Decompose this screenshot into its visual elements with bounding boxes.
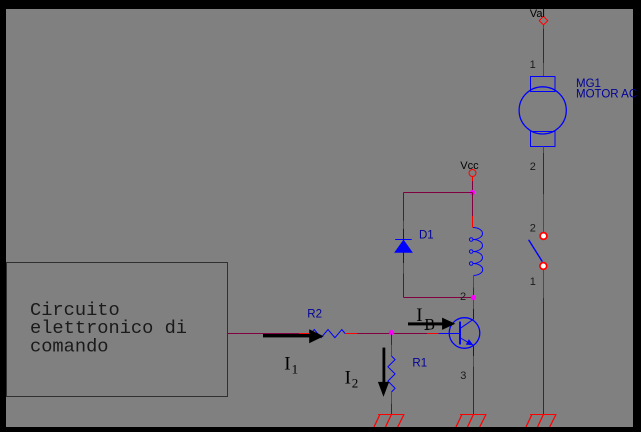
svg-text:1: 1 xyxy=(530,59,536,71)
svg-text:I: I xyxy=(284,354,290,375)
block: Circuito elettronico di comando xyxy=(7,263,228,397)
resistor R2 xyxy=(299,330,357,338)
wire emitter to ground xyxy=(473,367,475,415)
node junction base/R1 xyxy=(389,330,394,335)
diode D1 xyxy=(395,221,412,274)
ground (R1) xyxy=(374,415,405,428)
svg-text:1: 1 xyxy=(530,276,536,288)
switch S1 xyxy=(529,194,547,298)
power Val xyxy=(539,16,548,29)
ground (S1) xyxy=(526,415,557,428)
wire R2 to node xyxy=(357,333,392,335)
svg-text:2: 2 xyxy=(352,376,359,391)
resistor R1 xyxy=(388,345,395,404)
svg-text:R1: R1 xyxy=(412,358,427,370)
svg-text:I: I xyxy=(416,305,422,326)
wire Vcc to junction xyxy=(472,181,474,193)
svg-text:3: 3 xyxy=(460,370,466,382)
wire top of D1 loop xyxy=(404,192,473,194)
inductor L1 xyxy=(469,216,482,288)
wire Val to motor xyxy=(543,29,545,63)
svg-text:2: 2 xyxy=(530,222,536,234)
wire R1 to ground xyxy=(391,404,393,415)
node Vcc junction xyxy=(470,190,475,195)
wire left of D1 loop lower xyxy=(403,273,405,297)
svg-text:Val: Val xyxy=(530,8,545,20)
svg-text:R2: R2 xyxy=(307,309,322,321)
svg-text:D1: D1 xyxy=(419,230,434,242)
svg-text:comando: comando xyxy=(30,336,109,358)
ground (Q1 emitter) xyxy=(456,415,487,428)
wire motor to switch xyxy=(543,153,545,194)
current arrow IB xyxy=(408,318,455,330)
svg-text:2: 2 xyxy=(460,291,466,303)
wire bottom of D1 loop xyxy=(404,297,474,299)
svg-text:MOTOR AC: MOTOR AC xyxy=(576,89,637,101)
wire box to R2 xyxy=(228,333,300,335)
current arrow I2 xyxy=(378,348,389,397)
svg-text:I: I xyxy=(345,368,351,389)
transistor Q1 xyxy=(427,300,480,367)
wire node to Q1 base xyxy=(392,333,428,335)
current arrow I1 xyxy=(263,329,324,343)
wire switch to ground xyxy=(543,298,545,415)
wire node down to R1 xyxy=(391,334,393,346)
power Vcc xyxy=(469,170,476,182)
wire left of D1 loop upper xyxy=(403,193,405,222)
node collector junction xyxy=(471,295,476,300)
svg-text:2: 2 xyxy=(530,161,536,173)
svg-text:Vcc: Vcc xyxy=(460,160,479,172)
svg-text:1: 1 xyxy=(292,362,299,377)
motor MG1 xyxy=(519,63,566,153)
wire L1 to junction xyxy=(473,288,475,296)
wire Vcc junction to L1 xyxy=(472,193,474,217)
